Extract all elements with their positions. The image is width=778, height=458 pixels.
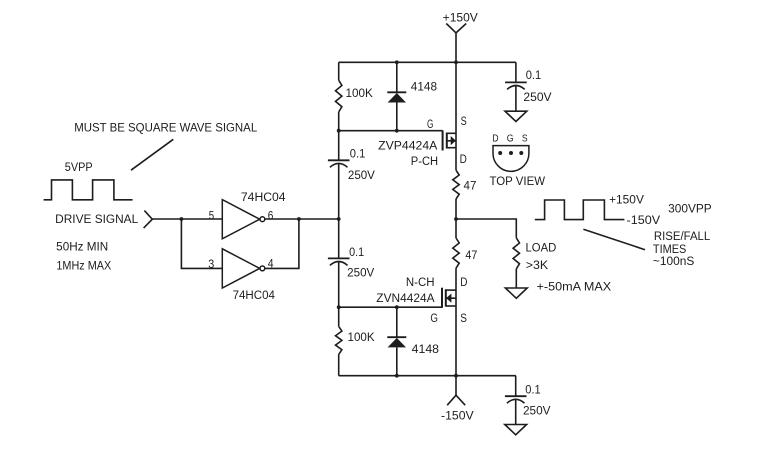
resistor 100K (lower) <box>336 307 375 376</box>
text DRIVE SIGNAL <box>55 214 139 226</box>
svg-text:RISE/FALL: RISE/FALL <box>654 231 711 243</box>
svg-text:250V: 250V <box>523 405 551 417</box>
svg-text:G: G <box>507 133 514 145</box>
svg-text:300VPP: 300VPP <box>668 203 712 215</box>
svg-text:S: S <box>460 313 467 325</box>
capacitor 0.1 250V (bottom right) <box>505 376 551 425</box>
svg-text:50Hz MIN: 50Hz MIN <box>56 241 108 253</box>
junction drive node / left rail <box>337 217 341 221</box>
package outline TOP VIEW <box>490 133 546 188</box>
wire Q2 source-drain vertical <box>455 290 457 376</box>
svg-text:47: 47 <box>464 181 477 193</box>
svg-text:D: D <box>492 133 499 145</box>
svg-text:ZVP4424A: ZVP4424A <box>378 140 438 152</box>
svg-text:TOP VIEW: TOP VIEW <box>490 176 546 188</box>
svg-text:+-50mA MAX: +-50mA MAX <box>537 282 612 294</box>
ground (top right) <box>505 111 527 121</box>
junction P-gate / D1 <box>395 129 399 133</box>
waveform 5VPP <box>44 162 133 200</box>
connector drive input <box>144 211 153 229</box>
wire N-gate net <box>339 306 442 308</box>
svg-text:250V: 250V <box>348 170 375 182</box>
capacitor 0.1 250V (top right) <box>505 62 552 111</box>
junction bottom rail / D2 <box>395 374 399 378</box>
svg-text:D: D <box>460 154 467 166</box>
text +-50mA MAX <box>537 282 612 294</box>
leader line square wave note <box>131 139 173 170</box>
transistor Q2 ZVN4424A N-CH <box>376 277 467 325</box>
junction N-gate / left rail <box>337 305 341 309</box>
resistor 47 (lower) <box>453 219 478 290</box>
svg-text:+150V: +150V <box>609 194 644 206</box>
diode D1 4148 (upper) <box>387 62 437 130</box>
diode D2 4148 (lower) <box>387 307 439 376</box>
inverter U1B 74HC04 <box>208 249 275 302</box>
svg-text:S: S <box>461 116 467 128</box>
inverter U1A 74HC04 <box>209 192 286 239</box>
load resistor LOAD >3K <box>513 238 556 288</box>
svg-text:MUST BE SQUARE WAVE SIGNAL: MUST BE SQUARE WAVE SIGNAL <box>74 123 258 135</box>
svg-text:6: 6 <box>268 210 274 222</box>
wire to U1B input <box>181 219 222 268</box>
capacitor 0.1 250V (upper left rail) <box>328 131 375 219</box>
wire drive input <box>152 218 222 220</box>
wire U1B output <box>265 219 299 268</box>
waveform output 300VPP <box>535 194 712 227</box>
text TIMES <box>653 244 687 256</box>
junction drive input split <box>180 217 184 221</box>
wire Q1 source-drain vertical <box>455 62 457 170</box>
svg-text:~100nS: ~100nS <box>653 256 695 268</box>
svg-text:5: 5 <box>209 210 214 222</box>
leader line rise/fall <box>583 229 645 250</box>
svg-text:P-CH: P-CH <box>411 156 438 168</box>
wire +150V stem <box>455 33 457 62</box>
svg-text:250V: 250V <box>347 267 374 279</box>
capacitor 0.1 250V (lower left rail) <box>328 219 375 307</box>
svg-text:G: G <box>427 119 433 131</box>
svg-text:TIMES: TIMES <box>653 244 687 256</box>
svg-text:+150V: +150V <box>443 13 478 25</box>
svg-text:>3K: >3K <box>526 260 549 272</box>
svg-text:G: G <box>430 313 438 325</box>
text 1MHz MAX <box>56 261 111 273</box>
svg-text:0.1: 0.1 <box>350 149 366 161</box>
junction N-gate / D2 <box>395 305 399 309</box>
text ~100nS <box>653 256 695 268</box>
svg-text:4148: 4148 <box>412 344 439 356</box>
transistor Q1 ZVP4424A P-CH <box>378 116 467 168</box>
junction output node <box>454 217 458 221</box>
svg-text:0.1: 0.1 <box>526 70 542 82</box>
svg-text:S: S <box>522 133 528 145</box>
junction top rail / D1 <box>395 60 399 64</box>
svg-text:74HC04: 74HC04 <box>233 290 276 302</box>
svg-text:ZVN4424A: ZVN4424A <box>376 293 435 305</box>
svg-text:0.1: 0.1 <box>525 384 540 396</box>
ground (load) <box>505 288 527 298</box>
svg-text:100K: 100K <box>348 332 375 344</box>
wire U1A output <box>265 218 339 220</box>
ground (bottom right) <box>505 425 527 435</box>
junction top rail / Q1 source <box>454 60 458 64</box>
svg-text:D: D <box>460 277 467 289</box>
junction inverter outputs <box>297 217 301 221</box>
svg-text:0.1: 0.1 <box>349 247 364 259</box>
resistor 47 (upper) <box>453 170 477 219</box>
svg-text:N-CH: N-CH <box>406 277 435 289</box>
text MUST BE SQUARE WAVE SIGNAL <box>74 123 258 135</box>
svg-text:LOAD: LOAD <box>526 242 557 254</box>
svg-text:3: 3 <box>208 259 214 271</box>
power symbol +150V <box>443 13 478 33</box>
junction bottom rail / Q2 source <box>454 374 458 378</box>
svg-text:74HC04: 74HC04 <box>241 192 286 204</box>
text RISE/FALL <box>654 231 711 243</box>
resistor 100K (upper) <box>336 62 374 130</box>
svg-text:-150V: -150V <box>441 411 474 423</box>
wire bottom rail <box>339 375 516 377</box>
svg-text:250V: 250V <box>523 92 552 104</box>
text 50Hz MIN <box>56 241 108 253</box>
wire top rail <box>339 61 516 63</box>
svg-text:5VPP: 5VPP <box>65 162 93 174</box>
svg-text:DRIVE SIGNAL: DRIVE SIGNAL <box>55 214 139 226</box>
power symbol -150V <box>441 376 474 423</box>
svg-text:47: 47 <box>465 250 477 262</box>
svg-text:1MHz MAX: 1MHz MAX <box>56 261 111 273</box>
svg-text:100K: 100K <box>346 88 374 100</box>
junction P-gate / left rail <box>337 129 341 133</box>
svg-text:4148: 4148 <box>411 81 437 93</box>
wire output node to load <box>456 219 516 238</box>
wire P-gate net <box>339 130 443 132</box>
svg-text:-150V: -150V <box>627 215 661 227</box>
